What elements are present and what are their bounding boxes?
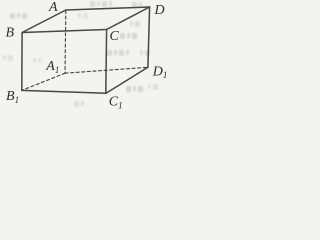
svg-text:A: A	[48, 0, 58, 15]
svg-text:C: C	[110, 29, 120, 44]
svg-text:B: B	[6, 25, 15, 40]
svg-text:C1: C1	[109, 94, 123, 110]
svg-text:D1: D1	[152, 64, 168, 80]
svg-text:A1: A1	[45, 59, 59, 75]
svg-text:B1: B1	[6, 89, 19, 105]
svg-text:D: D	[154, 3, 165, 18]
